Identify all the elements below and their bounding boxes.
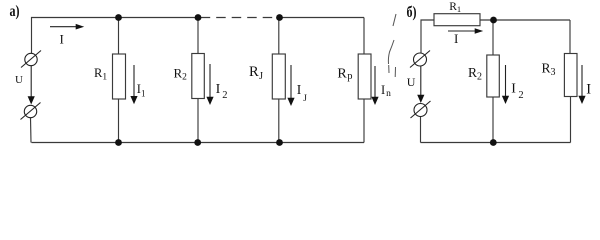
wire: RJ branch lower <box>278 99 280 143</box>
wire: circuit b left edge below source terminal 2 <box>420 116 422 142</box>
svg-text:In: In <box>381 83 391 99</box>
wire: circuit b bottom bus <box>421 142 571 144</box>
resistor R1 (circuit b, horizontal) <box>434 14 480 26</box>
current arrow In <box>371 66 378 105</box>
svg-text:I2: I2 <box>216 82 228 101</box>
source terminal 2 (circuit a): crossed circle <box>21 103 41 120</box>
node: a bottom junction at R2 <box>194 139 201 146</box>
wire: R1 branch upper <box>118 18 120 55</box>
svg-text:R1: R1 <box>94 66 107 82</box>
svg-text:IJ: IJ <box>297 82 308 104</box>
wire: circuit a left edge below source terminal 2 <box>30 118 33 143</box>
current arrow I2 (circuit a) <box>206 64 213 105</box>
svg-text:R2: R2 <box>174 66 188 83</box>
source terminal 1 (circuit a): crossed circle <box>21 51 41 68</box>
resistor Rp (circuit a) <box>358 54 371 99</box>
svg-text:а): а) <box>10 4 20 21</box>
node: b top junction at R2 <box>490 17 497 24</box>
node: a top junction at R2 <box>195 14 202 21</box>
svg-text:I: I <box>60 32 64 47</box>
node: b bottom junction at R2 <box>490 139 497 146</box>
svg-text:I1: I1 <box>137 82 146 98</box>
resistor RJ (circuit a) <box>272 54 285 99</box>
wire: circuit a top bus dashed segment <box>201 17 277 19</box>
wire: circuit a right edge upper (to Rp) <box>363 18 365 55</box>
wire: circuit b right edge lower (from R3) <box>570 97 572 143</box>
wire: circuit b top bus right of R1 <box>480 19 570 21</box>
svg-text:R1: R1 <box>449 1 461 14</box>
svg-text:I: I <box>586 82 591 98</box>
wire: R2 branch upper <box>197 18 199 54</box>
source terminal 2 (circuit b): crossed circle <box>411 101 431 118</box>
resistor R2 (circuit b) <box>487 55 500 97</box>
resistor R1 (circuit a) <box>113 54 126 99</box>
svg-text:U: U <box>15 74 23 86</box>
svg-text:I: I <box>454 31 458 46</box>
current arrow I (circuit b right) <box>578 65 585 104</box>
wire: RJ branch upper <box>278 18 280 55</box>
resistor R2 (circuit a) <box>192 54 205 99</box>
svg-text:R3: R3 <box>542 61 556 79</box>
resistor R3 (circuit b) <box>564 54 577 97</box>
wire: circuit a right edge lower (from Rp) <box>363 99 365 143</box>
wire: circuit b top bus left of R1 <box>421 20 434 53</box>
wire: circuit a top bus right segment <box>280 17 365 19</box>
svg-text:Rp: Rp <box>337 67 352 83</box>
separator squiggle between circuits <box>388 14 396 77</box>
wire: R2 branch lower (circuit b) <box>492 97 494 143</box>
current arrow I2 (circuit b) <box>502 65 509 104</box>
wire: circuit a bottom bus <box>32 142 365 144</box>
current arrow IJ <box>287 65 294 106</box>
current arrow I1 <box>130 65 137 104</box>
wire: R2 branch upper (circuit b) <box>492 20 494 55</box>
node: a top junction at R1 <box>115 14 122 21</box>
node: a bottom junction at R1 <box>115 139 122 146</box>
wire: R2 branch lower <box>197 99 199 143</box>
current arrow I (circuit b top) <box>448 28 483 34</box>
wire: R1 branch lower <box>118 99 120 143</box>
svg-text:б): б) <box>407 5 417 22</box>
svg-text:I2: I2 <box>511 82 523 102</box>
wire: circuit a top bus left solid segment <box>32 18 199 54</box>
node: a top junction at RJ <box>276 14 283 21</box>
node: a bottom junction at RJ <box>276 139 283 146</box>
source terminal 1 (circuit b): crossed circle <box>410 51 430 68</box>
voltage arrow U (circuit a) <box>28 66 35 105</box>
svg-text:R2: R2 <box>468 65 482 82</box>
voltage arrow U (circuit b) <box>417 66 424 103</box>
current arrow I (circuit a top) <box>50 24 84 30</box>
svg-text:RJ: RJ <box>249 64 263 82</box>
svg-text:U: U <box>407 75 416 89</box>
wire: circuit b right edge upper (to R3) <box>569 20 571 54</box>
